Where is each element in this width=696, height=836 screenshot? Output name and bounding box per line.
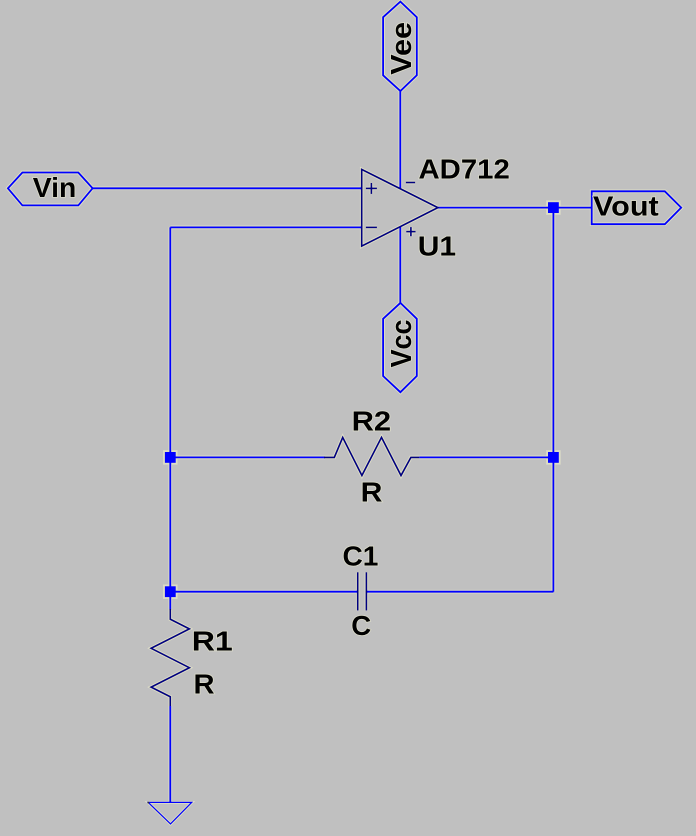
svg-text:R: R <box>361 478 383 508</box>
svg-text:R2: R2 <box>352 407 392 437</box>
svg-text:R1: R1 <box>192 627 233 657</box>
svg-text:Vout: Vout <box>593 192 659 222</box>
svg-text:Vcc: Vcc <box>385 320 417 368</box>
svg-text:AD712: AD712 <box>419 154 510 185</box>
svg-text:R: R <box>194 668 215 699</box>
svg-text:C: C <box>351 610 371 641</box>
svg-text:Vin: Vin <box>33 173 76 203</box>
svg-text:U1: U1 <box>418 232 456 262</box>
svg-text:Vee: Vee <box>386 22 418 75</box>
svg-text:C1: C1 <box>343 541 379 572</box>
